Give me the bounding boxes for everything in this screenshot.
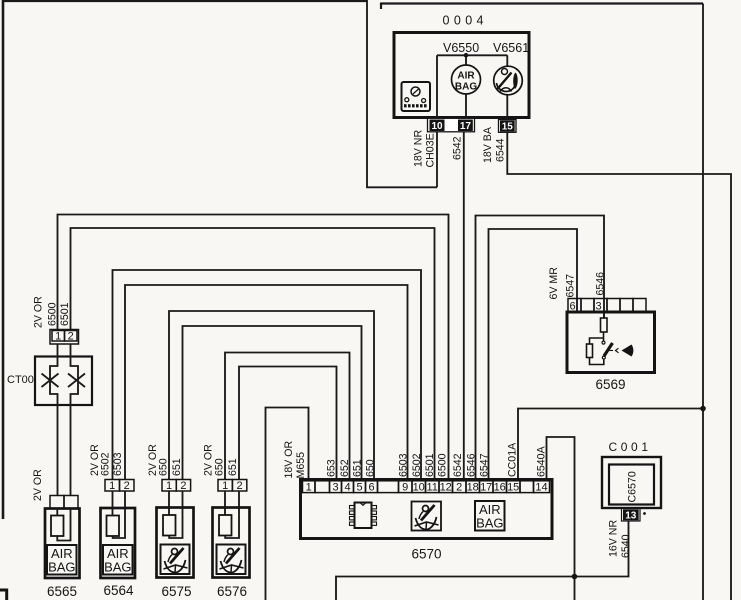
svg-text:652: 652 <box>339 459 351 477</box>
svg-text:18: 18 <box>467 482 479 494</box>
svg-text:6576: 6576 <box>217 584 247 599</box>
svg-text:17: 17 <box>480 482 492 494</box>
svg-text:6502: 6502 <box>100 452 112 476</box>
svg-text:2: 2 <box>68 330 74 342</box>
svg-text:6547: 6547 <box>565 274 577 298</box>
svg-text:1: 1 <box>109 480 115 492</box>
svg-text:1: 1 <box>166 480 172 492</box>
svg-text:6564: 6564 <box>104 583 135 598</box>
svg-text:16V NR: 16V NR <box>608 520 620 557</box>
svg-text:14: 14 <box>535 482 547 494</box>
svg-text:1: 1 <box>306 482 312 494</box>
svg-text:6500: 6500 <box>437 453 449 477</box>
svg-text:4: 4 <box>344 482 350 494</box>
svg-text:6540: 6540 <box>620 534 632 558</box>
svg-text:15: 15 <box>502 122 514 133</box>
svg-text:6547: 6547 <box>479 453 491 477</box>
svg-text:10: 10 <box>413 482 425 494</box>
svg-text:C6570: C6570 <box>627 471 639 502</box>
svg-text:C001: C001 <box>609 440 652 454</box>
svg-text:6569: 6569 <box>596 377 626 392</box>
svg-text:6575: 6575 <box>162 584 192 599</box>
svg-text:V6561: V6561 <box>493 41 529 55</box>
svg-text:651: 651 <box>352 459 364 477</box>
svg-text:2V OR: 2V OR <box>33 296 45 328</box>
svg-text:6546: 6546 <box>466 453 478 477</box>
svg-text:6540A: 6540A <box>536 445 548 477</box>
svg-text:651: 651 <box>171 458 183 476</box>
svg-text:2V OR: 2V OR <box>32 469 44 501</box>
svg-text:CT00: CT00 <box>7 374 34 386</box>
svg-text:3: 3 <box>332 482 338 494</box>
svg-text:1: 1 <box>55 330 61 342</box>
svg-text:10: 10 <box>431 121 443 132</box>
svg-text:6500: 6500 <box>47 302 59 326</box>
svg-text:6V MR: 6V MR <box>548 267 560 300</box>
svg-text:6542: 6542 <box>452 453 464 477</box>
svg-text:650: 650 <box>158 458 170 476</box>
svg-text:18V NR: 18V NR <box>413 130 425 167</box>
svg-text:9: 9 <box>402 482 408 494</box>
svg-text:CH03E: CH03E <box>425 133 437 167</box>
svg-text:650: 650 <box>214 458 226 476</box>
svg-text:11: 11 <box>426 482 437 494</box>
svg-text:5: 5 <box>356 482 362 494</box>
svg-text:12: 12 <box>440 482 452 494</box>
svg-text:650: 650 <box>365 459 377 477</box>
svg-text:15: 15 <box>507 482 519 494</box>
svg-text:2: 2 <box>124 480 130 492</box>
svg-text:18V OR: 18V OR <box>283 440 295 478</box>
svg-text:6503: 6503 <box>398 453 410 477</box>
svg-text:16: 16 <box>494 482 506 494</box>
svg-text:V6550: V6550 <box>443 41 479 55</box>
svg-text:2: 2 <box>180 480 186 492</box>
svg-text:653: 653 <box>326 459 338 477</box>
svg-text:2: 2 <box>237 480 243 492</box>
svg-text:18V BA: 18V BA <box>482 126 494 163</box>
svg-text:M655: M655 <box>295 452 307 479</box>
svg-text:17: 17 <box>460 121 472 132</box>
svg-text:6570: 6570 <box>412 547 442 562</box>
svg-text:CC01A: CC01A <box>507 442 519 477</box>
svg-text:2: 2 <box>456 482 462 494</box>
svg-text:AIR: AIR <box>457 71 475 82</box>
svg-text:6546: 6546 <box>595 272 607 296</box>
svg-text:6542: 6542 <box>452 136 464 160</box>
svg-text:6501: 6501 <box>424 453 436 477</box>
svg-text:651: 651 <box>227 458 239 476</box>
svg-text:6502: 6502 <box>411 453 423 477</box>
svg-text:6565: 6565 <box>47 584 77 599</box>
svg-text:6501: 6501 <box>59 302 71 326</box>
svg-text:BAG: BAG <box>455 82 477 93</box>
svg-text:6503: 6503 <box>112 452 124 476</box>
svg-text:6: 6 <box>368 482 374 494</box>
svg-text:1: 1 <box>222 480 228 492</box>
svg-text:0004: 0004 <box>443 14 488 28</box>
svg-text:13: 13 <box>625 510 637 521</box>
svg-text:6544: 6544 <box>495 138 507 162</box>
